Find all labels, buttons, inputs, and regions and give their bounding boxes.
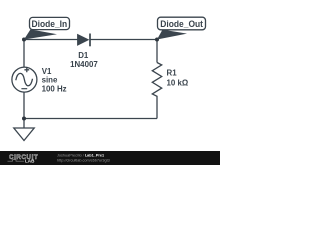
svg-text:http://circuitlab.com/c6b7ur3g: http://circuitlab.com/c6b7ur3gt3: [57, 159, 110, 163]
node B (top-right junction): [155, 38, 159, 42]
ground: [14, 128, 34, 141]
wire ground stem: [23, 119, 25, 129]
svg-text:100 Hz: 100 Hz: [42, 84, 67, 93]
svg-text:D1: D1: [78, 51, 89, 60]
diode D1 symbol: [78, 34, 91, 47]
svg-text:sine: sine: [42, 76, 58, 85]
svg-text:Diode_In: Diode_In: [32, 19, 68, 30]
flag pointer Diode_In: [24, 29, 57, 39]
svg-text:1N4007: 1N4007: [70, 60, 98, 69]
svg-text:Diode_Out: Diode_Out: [160, 19, 203, 30]
svg-text:JoshuaPrecilio / Lab1_Pre1: JoshuaPrecilio / Lab1_Pre1: [57, 154, 104, 158]
flag pointer Diode_Out: [157, 30, 187, 40]
svg-text:LAB: LAB: [25, 159, 35, 164]
svg-text:R1: R1: [167, 68, 178, 77]
node label Diode_Out: [158, 17, 206, 30]
node A (top-left junction): [22, 38, 26, 42]
wire left vertical upper (node A to V1 top): [23, 40, 25, 68]
wire top-left horizontal (node A to diode anode): [24, 39, 78, 41]
svg-text:10 kΩ: 10 kΩ: [167, 78, 189, 87]
voltage source V1: [12, 67, 37, 92]
resistor R1 symbol: [152, 63, 161, 98]
node label Diode_In: [30, 17, 70, 29]
wire bottom horizontal (node C to right corner): [24, 118, 157, 120]
wire right vertical lower (R1 bottom to bottom wire): [156, 98, 158, 119]
svg-text:V1: V1: [42, 67, 52, 76]
wire right vertical upper (node B to R1 top): [156, 40, 158, 63]
wire top-right horizontal (diode cathode to node B): [90, 39, 157, 41]
footer logo waveform: [8, 160, 25, 162]
footer bar: [0, 151, 220, 165]
wire left vertical lower (V1 bottom to node C): [23, 92, 25, 119]
node C (bottom-left junction): [22, 117, 26, 121]
